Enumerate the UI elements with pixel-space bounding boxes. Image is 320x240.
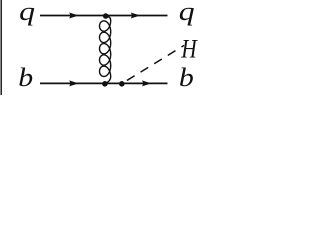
svg-text:q: q — [179, 0, 195, 26]
svg-text:b: b — [179, 64, 194, 93]
svg-text:H: H — [181, 36, 199, 65]
svg-text:b: b — [18, 64, 33, 93]
svg-text:q: q — [19, 0, 35, 26]
